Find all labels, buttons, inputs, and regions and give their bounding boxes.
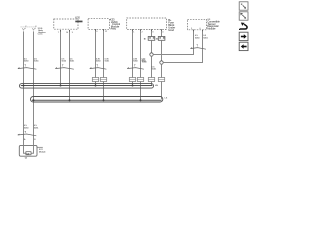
wire K1 pin14 to bus2	[69, 30, 71, 100]
wire K3 pinA to bus1	[132, 30, 134, 86]
splice S2	[160, 61, 163, 64]
wire K1 pin7 to bus1	[60, 30, 62, 85]
svg-text:Module: Module	[39, 152, 46, 154]
icon next arrow button	[239, 32, 248, 40]
connector C2-C on fuse wire	[148, 78, 154, 82]
twisted pair mark pair3	[90, 68, 107, 70]
module K3 dashed box	[127, 18, 167, 30]
connector C2-B on K3 wire	[137, 78, 143, 82]
wire S2 down to connector	[161, 64, 163, 99]
svg-text:C1: C1	[25, 158, 27, 160]
pin tick K2 pinA	[95, 29, 97, 31]
connector C2-A on K3 wire	[129, 78, 135, 82]
junction dot bus2 wire1	[33, 99, 35, 101]
wire K3 pinB to bus2	[140, 30, 142, 101]
pin tick K3 pin3	[151, 29, 153, 31]
junction dot bus1 wire3	[95, 85, 97, 87]
wire CAN-H left drop (node to module)	[23, 31, 25, 145]
pin tick K3 pin4	[161, 29, 163, 31]
junction dot bus2 wire4	[140, 99, 142, 101]
pin tick K1 pin7	[60, 30, 62, 32]
twisted pair mark pair4	[127, 68, 144, 70]
resistor R1 terminating	[26, 152, 31, 156]
connector C1-B on K2 wire	[100, 78, 106, 82]
fuse F1	[148, 37, 155, 41]
wire K2 pinA to bus1	[95, 29, 97, 85]
wire K4 pinB down	[163, 30, 202, 63]
wire F1 to splice S1	[151, 40, 153, 53]
svg-text:120: 120	[26, 154, 29, 156]
junction dot bus2 wire2	[69, 99, 71, 101]
fuse F2	[158, 37, 165, 41]
icon prev arrow button	[239, 42, 248, 50]
wire K3 pin4 to fuse F2	[161, 30, 163, 37]
icon zoom-out button	[239, 2, 248, 10]
module K2 dashed box	[88, 19, 109, 30]
icon return arrow	[240, 23, 247, 31]
twisted pair mark pair2	[55, 68, 74, 70]
label M1 name	[37, 146, 43, 148]
in-line connector X1 mating dashed line	[21, 26, 37, 28]
bus serial data low pill	[31, 97, 163, 103]
pin tick K2 pinB	[103, 29, 105, 31]
pin tick K3 pin2	[140, 29, 142, 31]
twisted pair mark pair6	[191, 48, 207, 50]
wire M1 internal B	[31, 145, 34, 153]
label K1 bold title bar	[75, 21, 82, 23]
module M1 box (with terminating resistor)	[19, 145, 37, 156]
junction dot bus2 wire3	[103, 99, 105, 101]
junction dot bus1 wire1	[23, 85, 25, 87]
wire M1 internal A	[24, 145, 26, 153]
icon zoom-in button	[239, 12, 248, 20]
wire K2 pinB to bus2	[103, 29, 105, 100]
module K1 dashed box	[54, 19, 78, 29]
svg-text:10: 10	[156, 39, 158, 41]
splice S1	[150, 53, 153, 56]
twisted pair mark pair1	[18, 68, 37, 70]
junction dot bus1 wire2	[60, 85, 62, 87]
pin tick K1 pin14	[69, 30, 71, 32]
module K4 dashed box	[187, 19, 206, 30]
in-line connector X1 fork terminal B	[32, 28, 36, 30]
wire K3 pin3 to fuse F1	[151, 30, 153, 37]
wire CAN-L left drop (node to module)	[33, 31, 35, 145]
pin tick K4 pinB	[202, 30, 204, 32]
svg-text:Assy: Assy	[110, 27, 116, 31]
svg-text:hood: hood	[168, 28, 174, 32]
wire S1 down to connector	[151, 56, 153, 85]
svg-text:Module: Module	[207, 26, 216, 30]
junction dot bus1 wire4	[132, 85, 134, 87]
pin tick K3 pin1	[132, 29, 134, 31]
twisted pair mark pair5	[18, 134, 37, 136]
wire K4 pinA down	[153, 30, 193, 55]
in-line connector X1 fork terminal A	[22, 28, 26, 30]
bus serial data high pill	[20, 84, 154, 89]
svg-text:K20: K20	[75, 16, 80, 20]
wire F2 to splice S2	[161, 40, 163, 61]
pin tick K4 pinA	[193, 30, 195, 32]
svg-text:15: 15	[144, 39, 146, 41]
connector C2-D on fuse wire	[158, 78, 164, 82]
connector C1-A on K2 wire	[92, 78, 98, 82]
